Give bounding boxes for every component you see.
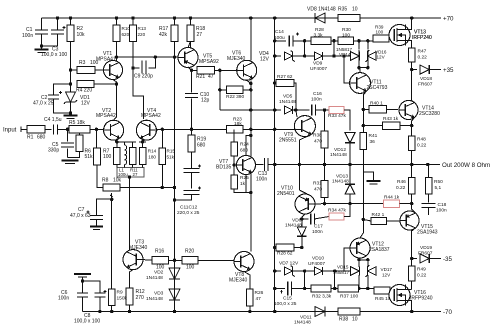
wire ground to caps	[82, 277, 84, 281]
wire R8 right	[120, 187, 175, 189]
svg-text:VD8 1N4148: VD8 1N4148	[307, 7, 336, 13]
svg-text:47: 47	[256, 296, 262, 302]
resistor R28	[311, 37, 331, 44]
svg-text:C4 1,5u: C4 1,5u	[44, 117, 62, 123]
svg-text:1k: 1k	[240, 181, 246, 187]
wire VT6 emitter	[247, 80, 251, 83]
resistor R47	[408, 48, 415, 62]
wire VT9 collector	[296, 110, 297, 117]
capacitor C16	[312, 105, 316, 116]
svg-text:2SA1943: 2SA1943	[417, 230, 438, 236]
zener diode VD7	[284, 267, 292, 275]
resistor R50	[425, 178, 432, 195]
diode VD10	[314, 267, 322, 275]
resistor R48	[408, 136, 415, 151]
svg-text:51k: 51k	[167, 155, 175, 160]
svg-text:VD9: VD9	[313, 61, 323, 67]
input terminal	[20, 127, 22, 132]
svg-text:R40 1: R40 1	[370, 101, 383, 107]
resistor R40	[369, 106, 386, 113]
wire VT1 collector node	[115, 55, 118, 58]
capacitor C5	[67, 129, 69, 141]
svg-text:12V: 12V	[382, 272, 391, 277]
svg-text:12p: 12p	[201, 98, 210, 104]
ground below C5	[62, 160, 79, 162]
svg-text:51k: 51k	[85, 154, 94, 160]
wire VT7 collector	[246, 135, 251, 155]
svg-text:100: 100	[342, 32, 350, 38]
svg-text:10: 10	[352, 317, 358, 323]
wire main VAS rail	[250, 18, 252, 60]
wire VT10 collector	[302, 214, 305, 219]
svg-text:36: 36	[370, 139, 376, 145]
svg-text:2SC4793: 2SC4793	[367, 85, 388, 91]
resistor R38	[338, 308, 360, 315]
capacitor C18	[422, 204, 436, 208]
wire bottom -70 rail	[83, 311, 442, 313]
svg-text:FR607: FR607	[418, 81, 433, 87]
svg-text:150k: 150k	[117, 296, 128, 302]
transistor VT11	[350, 73, 371, 94]
resistor R25	[231, 175, 238, 189]
svg-text:100,0 x 25: 100,0 x 25	[274, 301, 297, 307]
svg-text:100n: 100n	[22, 33, 33, 39]
mosfet VT13 IRFP240	[389, 25, 410, 46]
wire VT9 emitter	[299, 135, 311, 165]
resistor R20	[182, 257, 198, 264]
wire VT4 base node	[156, 128, 162, 131]
diode pair VD15 VD17	[335, 270, 351, 272]
svg-text:UF4007: UF4007	[310, 66, 327, 72]
svg-text:2N5401: 2N5401	[277, 191, 295, 197]
inductor L1	[124, 145, 126, 165]
wire VT7 base	[233, 156, 235, 175]
wire row41 left	[275, 40, 286, 42]
capacitor C13	[256, 164, 264, 166]
transistor VT15	[400, 211, 419, 230]
svg-text:0.22: 0.22	[417, 143, 427, 149]
wire row271	[275, 270, 281, 272]
svg-text:VD5: VD5	[283, 94, 293, 100]
wire VAS base row	[156, 128, 226, 130]
wire VT12 base	[344, 248, 350, 271]
ground below VD1	[70, 113, 72, 116]
resistor R24	[231, 142, 238, 156]
svg-text:100: 100	[90, 60, 99, 66]
resistor R41	[360, 133, 367, 150]
wire VT7 emitter	[245, 175, 247, 193]
svg-text:R47: R47	[418, 49, 427, 55]
svg-text:100n: 100n	[311, 96, 322, 102]
svg-text:VD17: VD17	[381, 267, 393, 272]
svg-text:1N5817: 1N5817	[333, 270, 350, 275]
svg-text:680: 680	[37, 135, 46, 141]
resistor R4	[77, 80, 94, 87]
node top rail junctions	[56, 16, 59, 19]
transistor VT9	[294, 116, 315, 137]
svg-text:R13: R13	[138, 26, 147, 31]
wire VT11 collector	[359, 68, 361, 73]
wire R7 to R8	[97, 165, 103, 188]
wire VT12 emitter row	[359, 259, 368, 261]
capacitor C4	[54, 124, 58, 134]
resistor R32	[311, 285, 331, 292]
resistor R38b 470	[321, 131, 328, 148]
svg-text:R4 220: R4 220	[76, 88, 92, 94]
capacitor C2	[54, 84, 71, 95]
svg-text:5,1: 5,1	[435, 185, 442, 191]
wire VT11 emitter	[363, 91, 366, 109]
svg-text:R26: R26	[255, 290, 264, 296]
wire VT15 connections	[412, 204, 416, 213]
resistor R35	[338, 14, 360, 21]
resistor R42	[371, 217, 386, 224]
svg-text:C11C12: C11C12	[180, 205, 198, 211]
svg-text:R16: R16	[155, 249, 164, 255]
mosfet VT13 IRFP240	[389, 25, 410, 46]
diode VD6	[297, 227, 306, 236]
svg-text:C18: C18	[438, 202, 447, 208]
transistor VT7	[237, 156, 256, 175]
svg-text:R41: R41	[369, 133, 378, 139]
svg-text:0.22: 0.22	[418, 55, 428, 61]
svg-text:MPSA92: MPSA92	[199, 59, 219, 65]
svg-text:C16: C16	[313, 91, 322, 97]
svg-text:100u: 100u	[118, 172, 128, 177]
svg-text:IRFP9240: IRFP9240	[410, 296, 433, 302]
wire -35 row	[412, 258, 417, 260]
wire VT5 emitter	[188, 67, 197, 70]
capacitor C14	[289, 35, 293, 46]
resistor R31	[321, 181, 328, 198]
svg-text:VD18: VD18	[420, 76, 432, 82]
svg-text:VD10: VD10	[312, 256, 324, 262]
diode pair VD14 VD16	[334, 55, 351, 57]
svg-text:470: 470	[314, 139, 322, 145]
svg-text:-35: -35	[443, 256, 453, 263]
resistor R43	[383, 122, 400, 129]
svg-text:R5 18k: R5 18k	[69, 120, 85, 126]
resistor R30	[338, 37, 354, 44]
svg-text:R42 1: R42 1	[372, 212, 385, 218]
resistor R33	[329, 106, 344, 113]
transistor VT5	[178, 48, 198, 68]
svg-text:42k: 42k	[159, 32, 168, 38]
resistor R22	[227, 86, 243, 93]
svg-text:C17: C17	[314, 224, 323, 230]
svg-text:680: 680	[240, 148, 248, 154]
diode VD13	[345, 184, 355, 194]
resistor R34	[329, 213, 344, 220]
svg-text:+70: +70	[443, 16, 454, 23]
svg-text:3,3k: 3,3k	[314, 32, 324, 38]
wire VT10 emitter	[299, 165, 311, 197]
wire R44 row	[325, 203, 384, 205]
svg-text:R25: R25	[240, 175, 249, 181]
svg-text:R20: R20	[185, 249, 194, 255]
wire VT12 collector top	[360, 219, 363, 238]
wire row56 diodes	[275, 55, 281, 57]
resistor R1	[27, 126, 45, 133]
resistor R14	[139, 148, 146, 165]
svg-text:10k: 10k	[113, 178, 122, 184]
svg-text:470: 470	[314, 187, 322, 193]
resistor R3	[77, 66, 95, 73]
svg-text:R28 62: R28 62	[277, 251, 293, 257]
svg-text:R10: R10	[122, 26, 131, 31]
box L1 R11 labels	[117, 168, 144, 178]
svg-text:330p: 330p	[48, 148, 59, 154]
svg-text:R50: R50	[434, 179, 443, 185]
svg-text:R24: R24	[240, 142, 249, 148]
svg-text:R48: R48	[417, 137, 426, 143]
svg-text:1N4148: 1N4148	[330, 152, 347, 158]
svg-text:100,0 x 100: 100,0 x 100	[74, 319, 100, 325]
resistor R16	[152, 257, 169, 264]
resistor R19	[188, 135, 195, 152]
diode VD18	[420, 65, 429, 74]
transistor VT12	[350, 238, 370, 258]
resistor R7	[94, 148, 101, 165]
svg-text:C15: C15	[283, 296, 292, 302]
capacitor C6	[82, 281, 84, 293]
wire +35 row	[412, 69, 417, 71]
svg-text:VD19: VD19	[420, 245, 432, 251]
resistor R49	[408, 266, 415, 281]
wire emitter row	[115, 140, 136, 142]
svg-text:UF4007: UF4007	[308, 261, 325, 267]
svg-text:1N4148: 1N4148	[294, 320, 311, 326]
wire VT1 emitter to VT2	[113, 80, 117, 121]
svg-text:IRFP240: IRFP240	[412, 35, 432, 41]
svg-text:1N4148: 1N4148	[332, 179, 349, 185]
diode VD2	[169, 268, 180, 279]
wire bottom of degeneration row	[116, 165, 118, 168]
svg-text:MJE340: MJE340	[229, 277, 248, 283]
svg-text:2N5551: 2N5551	[279, 137, 297, 143]
transistor VT4	[136, 120, 156, 140]
svg-text:R31: R31	[313, 181, 322, 187]
svg-text:R8: R8	[102, 178, 109, 184]
svg-text:-70: -70	[443, 309, 453, 316]
svg-text:18k: 18k	[234, 121, 242, 127]
svg-text:R22 390: R22 390	[226, 94, 244, 100]
transistor VT2	[104, 120, 124, 140]
resistor R6	[76, 135, 83, 152]
ground at out	[363, 172, 373, 181]
svg-text:VD7 12V: VD7 12V	[279, 261, 299, 267]
resistor R39	[373, 35, 389, 42]
wire diode pair bottom	[359, 62, 368, 68]
svg-text:0.22: 0.22	[396, 185, 406, 191]
wire R27 column	[275, 82, 276, 84]
wire VT4 collector feed	[133, 68, 144, 119]
svg-text:2SA1837: 2SA1837	[369, 247, 390, 253]
resistor R44	[384, 200, 400, 207]
resistor R2	[67, 25, 74, 42]
resistor R9a	[114, 148, 121, 165]
resistor R46	[408, 178, 415, 195]
svg-text:100: 100	[376, 29, 384, 34]
svg-text:VD15: VD15	[337, 265, 349, 270]
svg-text:Input: Input	[3, 128, 17, 134]
resistor R11	[129, 148, 136, 165]
wire VT14 connections	[412, 118, 415, 126]
svg-text:27: 27	[133, 172, 138, 177]
capacitor C10	[191, 70, 193, 92]
wire out rail	[275, 164, 440, 166]
resistor R26	[247, 289, 254, 306]
transistor VT8	[234, 252, 254, 272]
capacitor C11	[184, 169, 200, 173]
svg-text:R3: R3	[79, 60, 86, 66]
svg-text:R30: R30	[342, 27, 351, 33]
wire R2 to VD1 node	[70, 70, 72, 84]
svg-text:R38: R38	[339, 317, 348, 323]
capacitor C15	[275, 288, 285, 290]
svg-text:100u: 100u	[274, 35, 285, 41]
wire top +70 rail	[42, 17, 442, 19]
svg-text:C9 220p: C9 220p	[134, 74, 153, 80]
capacitor C1	[41, 18, 43, 30]
transistor VT1	[104, 61, 123, 80]
svg-text:MPSA42: MPSA42	[96, 113, 116, 119]
wire main right vertical	[274, 18, 276, 312]
resistor R18	[187, 25, 194, 42]
svg-text:+35: +35	[443, 67, 454, 74]
svg-text:680: 680	[197, 143, 206, 149]
svg-text:270: 270	[136, 295, 145, 301]
svg-text:10k: 10k	[77, 32, 86, 38]
svg-text:FR607: FR607	[418, 250, 433, 256]
svg-text:100n: 100n	[436, 207, 447, 213]
resistor R28b 62	[276, 244, 294, 251]
svg-text:R33 47k: R33 47k	[328, 113, 346, 119]
zener diode VD1	[70, 84, 72, 92]
resistor R9	[108, 289, 115, 306]
svg-text:620: 620	[122, 32, 130, 37]
svg-text:47,0 x 25: 47,0 x 25	[33, 101, 54, 107]
resistor R23	[227, 126, 243, 133]
svg-text:12V: 12V	[377, 55, 386, 60]
svg-text:MPSA41: MPSA41	[96, 56, 116, 62]
svg-text:47: 47	[208, 74, 214, 80]
mosfet VT16 IRFP9240	[389, 285, 410, 306]
svg-text:0.22: 0.22	[417, 273, 427, 279]
svg-text:100: 100	[103, 154, 112, 160]
resistor R13	[130, 25, 137, 42]
svg-text:180: 180	[148, 155, 156, 160]
svg-text:2SC3280: 2SC3280	[419, 111, 440, 117]
svg-text:BD135: BD135	[216, 165, 232, 171]
svg-text:12V: 12V	[260, 57, 270, 63]
node feedback	[110, 198, 113, 201]
wire VT5 base row	[117, 56, 179, 58]
svg-text:220: 220	[138, 32, 146, 37]
resistor R27	[276, 79, 294, 86]
wire VT14 collector	[411, 70, 413, 101]
resistor R10	[113, 25, 120, 42]
svg-text:27: 27	[197, 32, 203, 38]
node bottom rail junctions	[248, 310, 251, 313]
diode VD5	[284, 106, 292, 114]
transistor VT10	[295, 194, 315, 214]
svg-text:R21: R21	[196, 74, 205, 80]
resistor R8 trimmer	[103, 184, 120, 191]
diode VD11 1N4148 in bottom rail	[315, 307, 325, 317]
capacitor C12	[184, 191, 200, 195]
svg-text:1N4148: 1N4148	[279, 99, 296, 105]
svg-text:1N4148: 1N4148	[146, 296, 163, 302]
diode VD19	[420, 254, 429, 263]
wire VT11 base	[344, 56, 350, 83]
svg-text:100n: 100n	[312, 229, 323, 235]
capacitor C17	[311, 214, 315, 225]
transistor VT6	[237, 60, 257, 80]
transistor VT3	[123, 250, 143, 270]
node out rail dots	[410, 163, 413, 166]
svg-text:R15: R15	[167, 149, 176, 154]
svg-text:R14: R14	[148, 149, 157, 154]
diode VD9	[314, 52, 322, 60]
svg-text:VD3: VD3	[154, 291, 164, 297]
svg-text:MJE340: MJE340	[129, 245, 148, 251]
svg-text:R34 47k: R34 47k	[328, 208, 346, 214]
capacitor C9	[133, 67, 140, 69]
capacitor C8	[83, 281, 100, 293]
svg-text:1N4148: 1N4148	[285, 223, 302, 229]
zener diode VD4	[284, 52, 292, 60]
ground above C6	[74, 273, 91, 275]
diode VD3	[169, 289, 180, 300]
transistor VT14	[399, 101, 418, 120]
svg-text:Out 200W 8 Ohm: Out 200W 8 Ohm	[442, 162, 490, 169]
wire VT8 collector rail	[250, 193, 252, 252]
resistor R21	[197, 67, 214, 74]
svg-text:12V: 12V	[81, 101, 91, 107]
svg-text:47,0 x 63: 47,0 x 63	[70, 213, 91, 219]
svg-text:R35: R35	[338, 7, 347, 13]
resistor R5	[69, 126, 90, 133]
wire VD2 VD3 column	[174, 188, 176, 312]
resistor R37	[338, 285, 359, 292]
capacitor C7	[97, 199, 112, 215]
svg-text:1N4148: 1N4148	[146, 275, 163, 281]
svg-text:100n: 100n	[256, 176, 267, 182]
svg-text:100: 100	[186, 265, 195, 271]
resistor R45	[374, 287, 390, 294]
ground below C3	[41, 46, 43, 50]
svg-text:R46: R46	[397, 179, 406, 185]
svg-text:VD2: VD2	[154, 270, 164, 276]
svg-text:R43 1k: R43 1k	[383, 116, 399, 122]
svg-text:MJE340: MJE340	[227, 56, 246, 62]
wire VT10 base node	[315, 203, 325, 205]
svg-text:R9: R9	[117, 290, 123, 296]
wire VD6 row	[302, 218, 309, 220]
svg-text:R38: R38	[313, 133, 322, 139]
svg-text:220,0 x 25: 220,0 x 25	[177, 210, 200, 216]
svg-text:100n: 100n	[58, 296, 69, 302]
svg-text:10: 10	[352, 7, 358, 13]
svg-text:R44 1k: R44 1k	[384, 195, 400, 201]
svg-text:R32 3,3k: R32 3,3k	[312, 294, 332, 300]
resistor R15	[159, 148, 166, 165]
diode VD8 1N4148 in top rail	[315, 13, 325, 23]
wire VT11 emitter chain	[362, 109, 364, 125]
svg-text:R27 62: R27 62	[277, 74, 293, 80]
diode VD12	[345, 133, 355, 143]
